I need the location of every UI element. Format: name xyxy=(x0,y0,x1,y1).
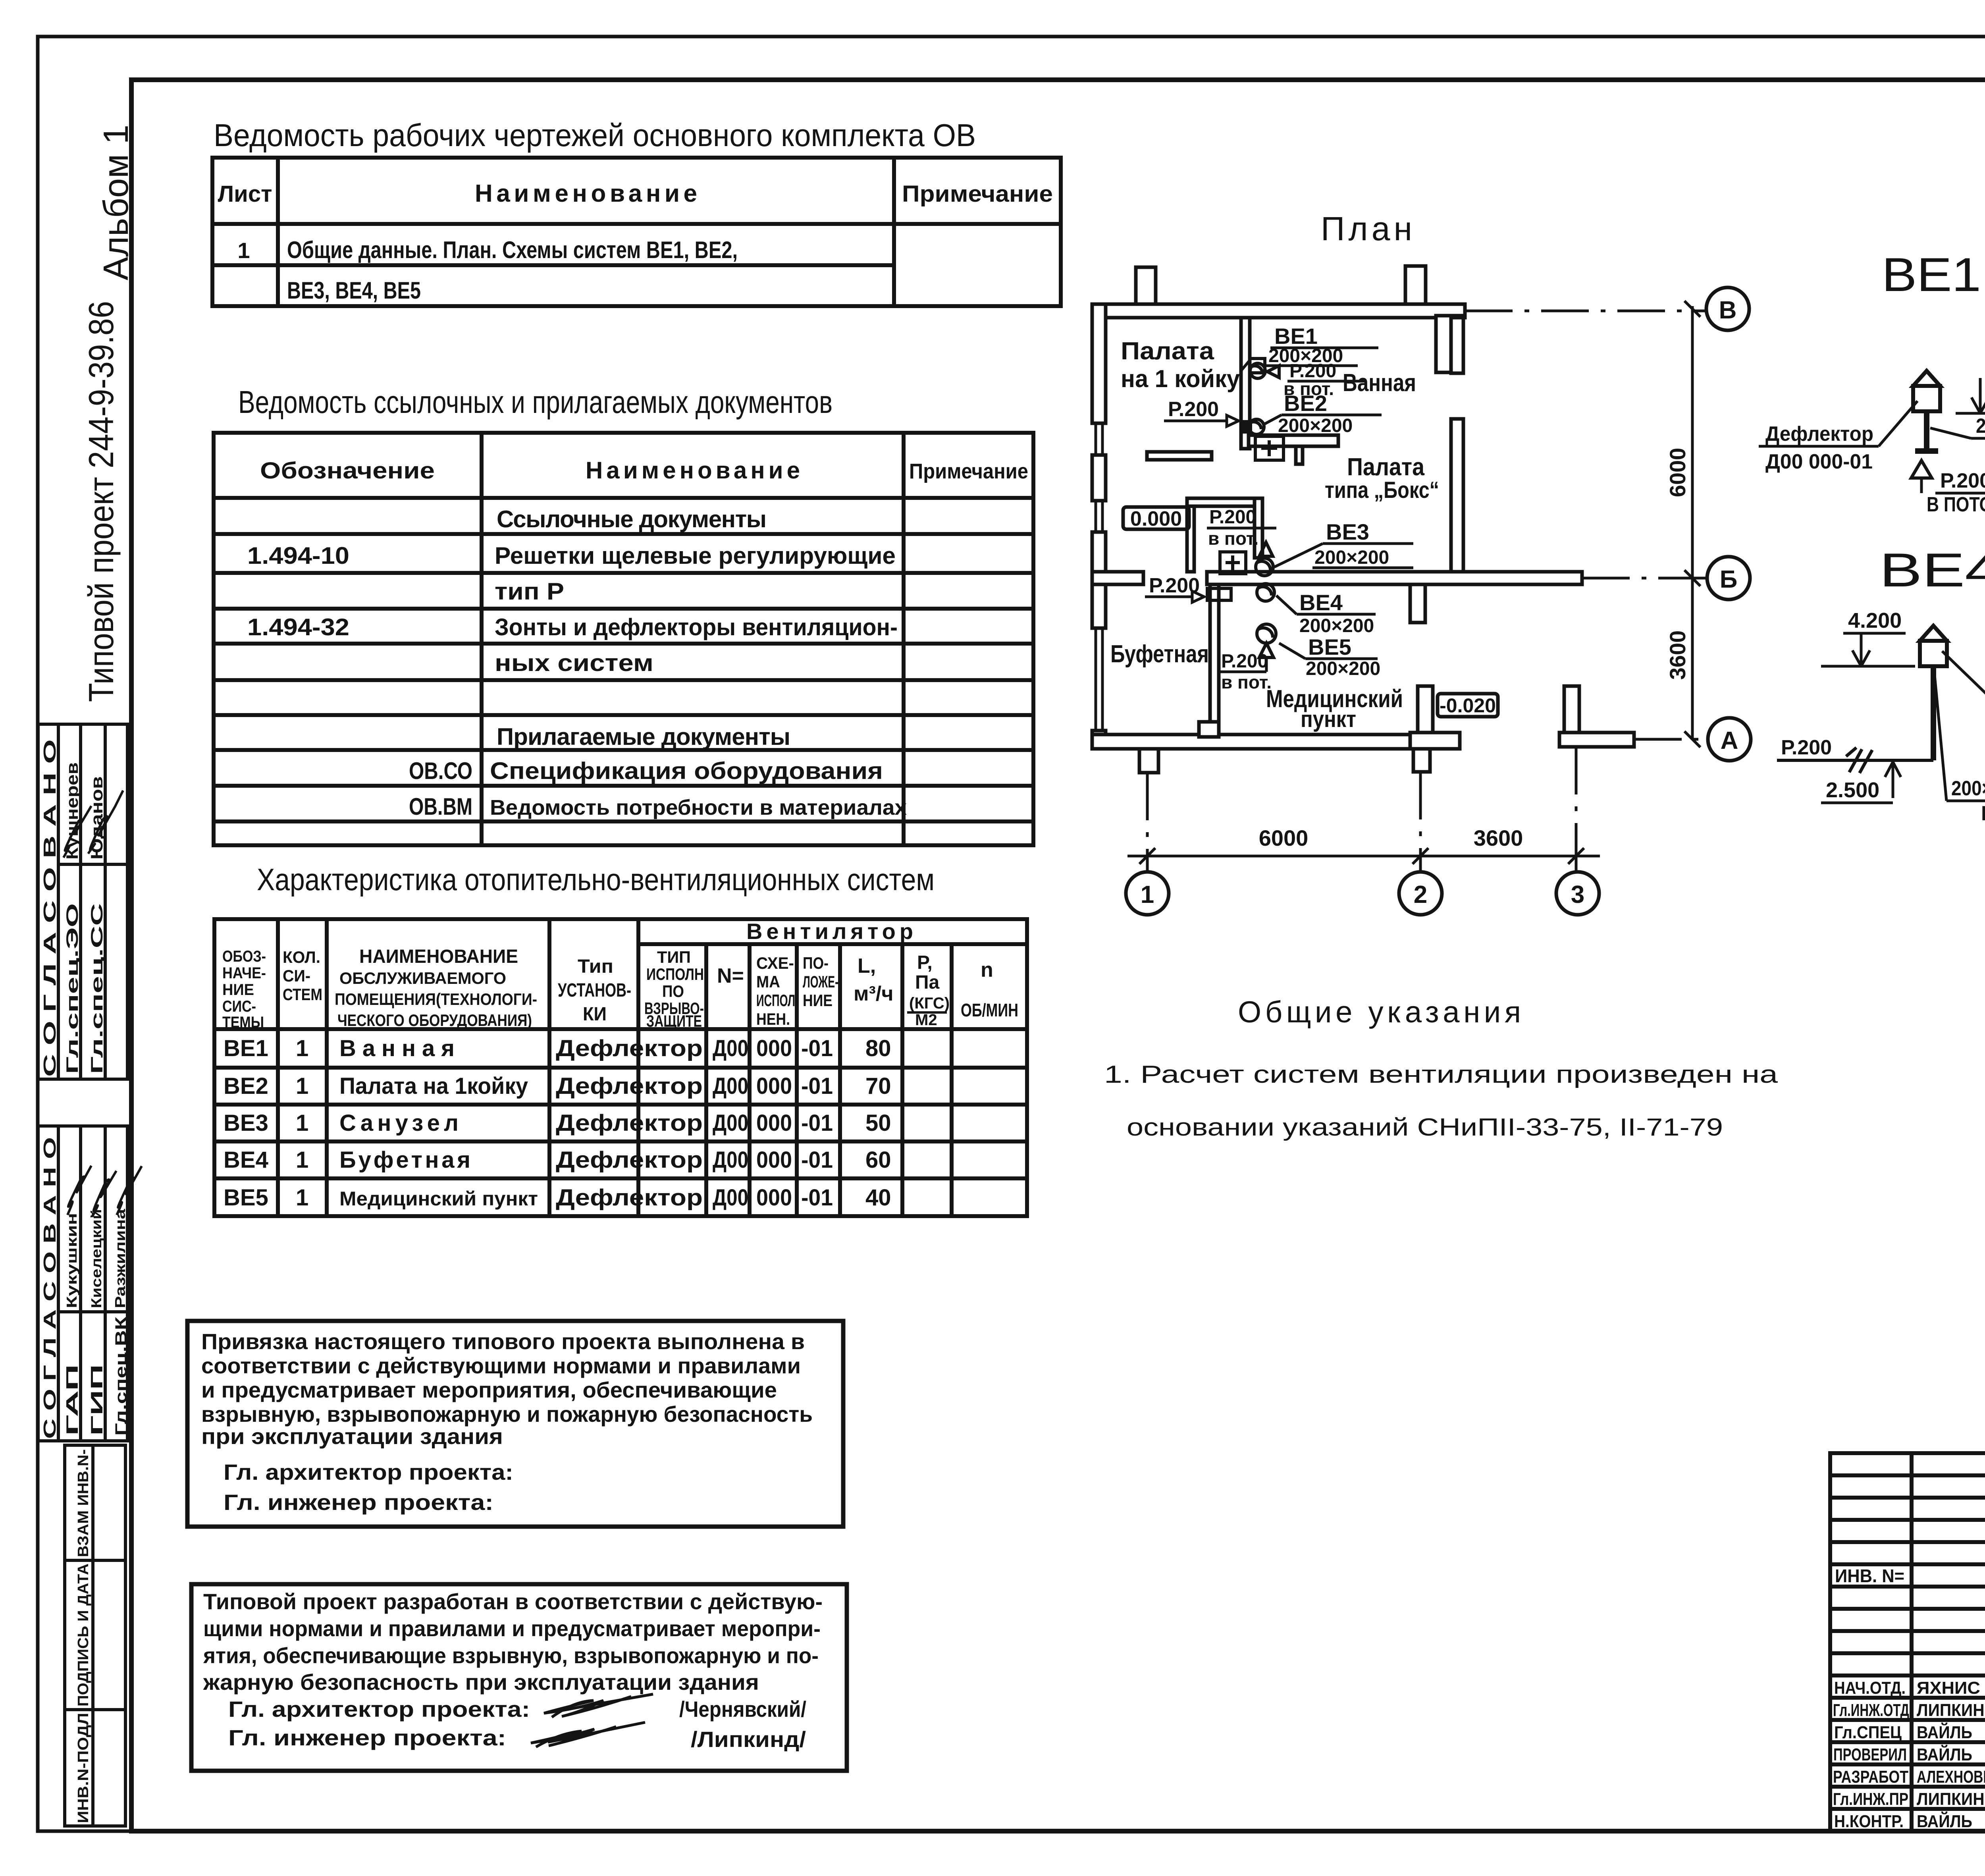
label duct size BE1 xyxy=(1930,415,1985,465)
svg-text:Р,: Р, xyxy=(917,952,933,973)
svg-text:ВЗАМ ИНВ.N-: ВЗАМ ИНВ.N- xyxy=(75,1449,92,1557)
svg-text:Обозначение: Обозначение xyxy=(260,458,435,484)
svg-text:Ванная: Ванная xyxy=(1343,369,1416,397)
svg-text:ОВ.ВМ: ОВ.ВМ xyxy=(409,793,472,820)
svg-text:Дефлектор: Дефлектор xyxy=(556,1073,703,1099)
bathroom bottom wall xyxy=(1249,435,1338,446)
duct BE4 xyxy=(1931,666,1936,760)
svg-text:ИНВ.N-ПОДЛ: ИНВ.N-ПОДЛ xyxy=(75,1713,92,1823)
approval block 2 xyxy=(38,1126,127,1441)
svg-text:Р.200: Р.200 xyxy=(1781,736,1832,759)
BE2 grille symbol xyxy=(1242,419,1264,434)
svg-text:Общие указания: Общие указания xyxy=(1238,995,1521,1029)
duct BE1 xyxy=(1915,411,1938,451)
svg-text:3600: 3600 xyxy=(1665,630,1690,680)
svg-text:Киселецкий: Киселецкий xyxy=(88,1209,104,1308)
svg-text:Д00: Д00 xyxy=(713,1147,748,1173)
BE4 labels xyxy=(1276,590,1376,636)
svg-text:ВАЙЛЬ: ВАЙЛЬ xyxy=(1917,1722,1972,1742)
BE4 fan symbol xyxy=(1257,584,1274,601)
svg-text:Медицинский пункт: Медицинский пункт xyxy=(339,1188,538,1210)
svg-text:в пот.: в пот. xyxy=(1221,672,1272,692)
svg-text:ПО-: ПО- xyxy=(803,954,829,972)
svg-text:СТЕМ: СТЕМ xyxy=(283,985,322,1004)
svg-text:на 1 койку: на 1 койку xyxy=(1121,365,1240,393)
svg-text:000: 000 xyxy=(756,1185,792,1211)
svg-text:ВЕ3: ВЕ3 xyxy=(224,1110,268,1136)
svg-text:План: План xyxy=(1321,210,1412,247)
svg-text:С О Г Л А С О В А Н О: С О Г Л А С О В А Н О xyxy=(40,739,60,1077)
svg-text:типа „Бокс“: типа „Бокс“ xyxy=(1325,477,1439,503)
svg-text:200×200: 200×200 xyxy=(1951,777,1985,800)
vertical dimension line xyxy=(1684,301,1700,747)
svg-text:6000: 6000 xyxy=(1665,448,1690,497)
svg-text:1: 1 xyxy=(296,1185,308,1211)
svg-text:ЗАЩИТЕ: ЗАЩИТЕ xyxy=(646,1012,702,1030)
svg-text:Р.200: Р.200 xyxy=(1209,507,1256,528)
chimney stub top-right xyxy=(1405,266,1426,304)
svg-text:ОБ/МИН: ОБ/МИН xyxy=(961,1000,1018,1020)
palata boks left wall xyxy=(1451,318,1463,373)
svg-text:Ведомость потребности в матери: Ведомость потребности в материалах xyxy=(490,796,907,819)
level mark 2.500 BE4 xyxy=(1821,762,1901,803)
svg-text:ВЕ1: ВЕ1 xyxy=(224,1035,268,1061)
svg-text:Гл. инженер проекта:: Гл. инженер проекта: xyxy=(228,1725,506,1750)
svg-text:Гл.СПЕЦ: Гл.СПЕЦ xyxy=(1834,1723,1902,1742)
svg-text:МА: МА xyxy=(756,972,780,991)
svg-text:200×200: 200×200 xyxy=(1314,547,1389,568)
svg-text:200×200: 200×200 xyxy=(1299,615,1374,636)
chimney stub top-left xyxy=(1136,267,1156,304)
partition Palata/Vannaya xyxy=(1241,318,1250,449)
svg-text:СХЕ-: СХЕ- xyxy=(756,954,794,972)
svg-text:ОВ.СО: ОВ.СО xyxy=(409,758,472,784)
svg-text:НИЕ: НИЕ xyxy=(803,991,833,1010)
deflector BE1 xyxy=(1913,371,1940,411)
svg-text:4.200: 4.200 xyxy=(1848,609,1902,632)
svg-text:Буфетная: Буфетная xyxy=(1110,640,1209,668)
svg-text:ВАЙЛЬ: ВАЙЛЬ xyxy=(1917,1744,1972,1764)
walls xyxy=(1092,266,1634,773)
svg-text:Гл.ИНЖ.ОТД: Гл.ИНЖ.ОТД xyxy=(1833,1701,1909,1720)
svg-text:Гл. архитектор проекта:: Гл. архитектор проекта: xyxy=(228,1697,530,1722)
svg-text:2: 2 xyxy=(1414,881,1427,908)
svg-text:1.494-10: 1.494-10 xyxy=(247,542,349,569)
svg-text:Па: Па xyxy=(915,972,940,993)
svg-text:ЛИПКИНА: ЛИПКИНА xyxy=(1917,1701,1985,1720)
svg-text:СИ-: СИ- xyxy=(283,966,310,985)
svg-text:ВЕ1: ВЕ1 xyxy=(1274,324,1318,349)
svg-text:Прилагаемые документы: Прилагаемые документы xyxy=(497,723,790,750)
svg-text:НАЧ.ОТД.: НАЧ.ОТД. xyxy=(1834,1678,1906,1698)
svg-text:Кушнерев: Кушнерев xyxy=(63,762,81,860)
svg-text:ИСПОЛН: ИСПОЛН xyxy=(646,965,704,983)
svg-text:L,: L, xyxy=(858,954,876,978)
svg-text:Палата на 1койку: Палата на 1койку xyxy=(339,1073,528,1099)
BE5 labels xyxy=(1279,634,1380,679)
svg-text:РАЗРАБОТ: РАЗРАБОТ xyxy=(1833,1767,1908,1787)
svg-text:М2: М2 xyxy=(915,1011,937,1029)
svg-text:1: 1 xyxy=(296,1035,308,1061)
svg-text:3600: 3600 xyxy=(1474,825,1523,850)
svg-text:-01: -01 xyxy=(801,1185,833,1211)
label duct size BE4 xyxy=(1935,675,1985,825)
svg-text:000: 000 xyxy=(756,1147,792,1173)
svg-text:ПОДПИСЬ И ДАТА: ПОДПИСЬ И ДАТА xyxy=(75,1564,92,1706)
svg-text:при эксплуатации здания: при эксплуатации здания xyxy=(201,1424,503,1449)
svg-text:ВЕ4: ВЕ4 xyxy=(1879,544,1985,597)
signatures block 1 xyxy=(64,791,123,858)
label deflector BE1 xyxy=(1759,401,1918,473)
level mark 4.200 BE4 xyxy=(1821,609,1915,666)
pilaster axis2 T xyxy=(1418,686,1433,749)
svg-text:соответствии с действующими но: соответствии с действующими нормами и пр… xyxy=(201,1353,801,1378)
svg-text:Гл. инженер проекта:: Гл. инженер проекта: xyxy=(224,1490,493,1515)
svg-text:УСТАНОВ-: УСТАНОВ- xyxy=(558,980,631,1001)
svg-text:ТИП: ТИП xyxy=(657,948,691,966)
svg-text:Дефлектор: Дефлектор xyxy=(556,1147,703,1173)
svg-text:Дефлектор: Дефлектор xyxy=(556,1035,703,1061)
svg-text:ВЕ5: ВЕ5 xyxy=(1308,634,1351,659)
svg-text:Ведомость рабочих чертежей осн: Ведомость рабочих чертежей основного ком… xyxy=(214,118,976,153)
svg-text:Общие данные. План. Схемы сист: Общие данные. План. Схемы систем ВЕ1, ВЕ… xyxy=(287,237,738,263)
svg-text:Привязка настоящего типового п: Привязка настоящего типового проекта вып… xyxy=(201,1329,805,1354)
svg-text:Буфетная: Буфетная xyxy=(339,1147,470,1173)
wall stub right of su xyxy=(1255,498,1262,558)
axis B wall (middle horizontal) xyxy=(1092,572,1143,584)
svg-text:основании указаний СНиПII-33-7: основании указаний СНиПII-33-75, II-71-7… xyxy=(1127,1114,1723,1141)
window lines on left wall xyxy=(1096,423,1102,731)
svg-text:Ссылочные документы: Ссылочные документы xyxy=(497,506,767,532)
svg-text:Гл.ИНЖ.ПР: Гл.ИНЖ.ПР xyxy=(1833,1789,1908,1809)
svg-text:1: 1 xyxy=(296,1073,308,1099)
svg-text:/Чернявский/: /Чернявский/ xyxy=(679,1697,806,1722)
BE1 grille symbol xyxy=(1250,359,1279,378)
bathroom wall stub xyxy=(1296,446,1303,464)
axis 2 vertical xyxy=(1419,772,1422,872)
svg-text:В ПОТОЛКЕ: В ПОТОЛКЕ xyxy=(1927,493,1985,516)
left exterior wall upper xyxy=(1092,304,1106,423)
svg-text:Гл. архитектор проекта:: Гл. архитектор проекта: xyxy=(224,1460,513,1485)
left signature table verticals xyxy=(1910,1453,1914,1830)
svg-text:-0.020: -0.020 xyxy=(1440,694,1496,717)
axis circle B xyxy=(1706,287,1749,330)
svg-text:Р.200: Р.200 xyxy=(1221,651,1268,672)
svg-text:Разжилина: Разжилина xyxy=(112,1209,128,1308)
svg-text:в пот.: в пот. xyxy=(1208,528,1258,549)
vestibule wall top-right xyxy=(1436,316,1462,372)
svg-text:1: 1 xyxy=(296,1110,308,1136)
axis circle 2 xyxy=(1399,872,1442,915)
level mark -0.020 xyxy=(1438,694,1498,717)
left exterior wall lower xyxy=(1092,576,1106,628)
document storage strip boxes xyxy=(65,1445,125,1826)
svg-text:Типовой проект разработан в со: Типовой проект разработан в соответствии… xyxy=(203,1589,823,1614)
axis line B horizontal xyxy=(1147,311,1706,872)
svg-text:1.494-32: 1.494-32 xyxy=(247,614,349,640)
svg-text:ВЕ5: ВЕ5 xyxy=(224,1185,268,1211)
svg-text:(КГС): (КГС) xyxy=(909,995,950,1012)
svg-text:НЕН.: НЕН. xyxy=(756,1010,790,1028)
BE4 duct stub xyxy=(1207,588,1231,600)
svg-text:Д00: Д00 xyxy=(713,1035,748,1061)
svg-text:Гл.спец.ВК: Гл.спец.ВК xyxy=(112,1316,130,1436)
svg-text:ТЕМЫ: ТЕМЫ xyxy=(222,1014,264,1031)
svg-text:щими нормами и правилами и пре: щими нормами и правилами и предусматрива… xyxy=(203,1616,821,1641)
svg-text:ГАП: ГАП xyxy=(63,1364,81,1436)
svg-text:L 60: L 60 xyxy=(1981,802,1985,825)
svg-text:Дефлектор: Дефлектор xyxy=(556,1185,703,1211)
svg-text:000: 000 xyxy=(756,1073,792,1099)
svg-text:ВЕ1: ВЕ1 xyxy=(1882,248,1981,301)
svg-text:Кукушкин: Кукушкин xyxy=(64,1213,80,1308)
svg-text:Типовой проект 244-9-39.86: Типовой проект 244-9-39.86 xyxy=(81,301,121,702)
buffet partition xyxy=(1210,584,1219,722)
svg-text:40: 40 xyxy=(865,1185,891,1211)
svg-text:1: 1 xyxy=(296,1147,308,1173)
svg-text:ных систем: ных систем xyxy=(495,650,653,676)
axis line Б xyxy=(1582,577,1706,580)
svg-text:50: 50 xyxy=(865,1110,891,1136)
axis circle 3 xyxy=(1556,872,1599,915)
plus box (su) xyxy=(1220,552,1246,574)
approval block 1 xyxy=(38,724,127,1079)
svg-text:/Липкинд/: /Липкинд/ xyxy=(691,1727,806,1752)
svg-text:ВЕ3: ВЕ3 xyxy=(1326,519,1369,544)
grille arrow BE1 xyxy=(1911,461,1932,478)
axis circle А xyxy=(1708,718,1751,761)
BE3 fan symbol xyxy=(1256,542,1273,576)
svg-text:Р.200: Р.200 xyxy=(1168,398,1219,421)
svg-text:ЛОЖЕ-: ЛОЖЕ- xyxy=(803,972,838,991)
P.200 line with valve BE4 xyxy=(1777,736,1933,773)
axis line А xyxy=(1634,738,1706,741)
svg-text:Н.КОНТР.: Н.КОНТР. xyxy=(1834,1812,1904,1831)
svg-text:000: 000 xyxy=(756,1035,792,1061)
handwritten signatures xyxy=(531,1694,653,1747)
label P.200 v potolke BE1 xyxy=(1921,469,1985,516)
svg-text:Дефлектор: Дефлектор xyxy=(1765,422,1873,445)
svg-text:-01: -01 xyxy=(801,1110,833,1136)
left table row lines xyxy=(1830,1473,1985,1477)
svg-text:Д00 000-01: Д00 000-01 xyxy=(1765,450,1873,473)
plus box (bathroom) xyxy=(1255,436,1284,460)
axis 3 vertical xyxy=(1575,747,1578,872)
svg-text:80: 80 xyxy=(865,1035,891,1061)
svg-text:ятия, обеспечивающие взрывную,: ятия, обеспечивающие взрывную, взрывопож… xyxy=(203,1643,819,1668)
svg-text:Д00: Д00 xyxy=(713,1110,748,1136)
BE1 labels xyxy=(1241,324,1378,399)
svg-text:N=: N= xyxy=(717,964,744,987)
svg-text:Альбом 1: Альбом 1 xyxy=(96,125,135,280)
svg-text:ЧЕСКОГО ОБОРУДОВАНИЯ): ЧЕСКОГО ОБОРУДОВАНИЯ) xyxy=(337,1011,532,1030)
axis circle 1 xyxy=(1126,872,1169,915)
P.200 arrow left (BE2 duct) xyxy=(1164,398,1239,426)
svg-text:60: 60 xyxy=(865,1147,891,1173)
svg-text:6000: 6000 xyxy=(1259,825,1309,850)
svg-text:Дефлектор: Дефлектор xyxy=(556,1110,703,1136)
svg-text:Лист: Лист xyxy=(218,181,272,207)
svg-text:тип Р: тип Р xyxy=(495,578,564,605)
signature rows labels xyxy=(1833,1678,1985,1831)
svg-text:1: 1 xyxy=(237,238,250,263)
BE2 labels xyxy=(1264,391,1382,436)
bottom exterior wall xyxy=(1092,735,1413,749)
svg-text:70: 70 xyxy=(865,1073,891,1099)
svg-text:ВЕ3, ВЕ4, ВЕ5: ВЕ3, ВЕ4, ВЕ5 xyxy=(287,277,421,304)
svg-text:ВАЙЛЬ: ВАЙЛЬ xyxy=(1917,1811,1972,1831)
svg-text:НИЕ: НИЕ xyxy=(222,981,254,999)
svg-text:1: 1 xyxy=(1141,881,1154,908)
svg-text:ЛИПКИНА: ЛИПКИНА xyxy=(1917,1789,1985,1809)
svg-text:ВЕ2: ВЕ2 xyxy=(224,1073,268,1099)
P.200 arrow (BE4 duct) xyxy=(1145,574,1204,602)
top exterior wall xyxy=(1092,304,1465,318)
svg-text:Гл.спец.СС: Гл.спец.СС xyxy=(87,903,106,1074)
pilaster axis3 corner xyxy=(1564,686,1579,747)
svg-text:В: В xyxy=(1719,297,1737,324)
svg-text:КИ: КИ xyxy=(583,1004,607,1025)
svg-text:Решетки щелевые регулирующие: Решетки щелевые регулирующие xyxy=(495,542,896,569)
svg-text:ЯХНИС: ЯХНИС xyxy=(1917,1678,1980,1698)
svg-text:2.500: 2.500 xyxy=(1826,778,1879,802)
svg-text:А: А xyxy=(1721,727,1738,754)
svg-text:200×200: 200×200 xyxy=(1306,658,1380,679)
svg-text:взрывную, взрывопожарную и пож: взрывную, взрывопожарную и пожарную безо… xyxy=(201,1402,813,1427)
level mark 4.200 BE1 xyxy=(1956,353,1985,413)
svg-text:м³/ч: м³/ч xyxy=(854,982,893,1005)
svg-text:Примечание: Примечание xyxy=(909,459,1028,483)
signatures block 2 xyxy=(67,1166,142,1217)
svg-text:ВЕ2: ВЕ2 xyxy=(1284,391,1327,416)
svg-text:ВЕ4: ВЕ4 xyxy=(224,1147,268,1173)
svg-text:Б: Б xyxy=(1720,566,1738,593)
svg-text:Ведомость ссылочных и прилагае: Ведомость ссылочных и прилагаемых докуме… xyxy=(238,384,833,420)
P.200 v pot. (BE3) xyxy=(1207,507,1276,549)
svg-text:КОЛ.: КОЛ. xyxy=(283,948,320,966)
svg-text:Тип: Тип xyxy=(578,956,613,977)
svg-text:НАИМЕНОВАНИЕ: НАИМЕНОВАНИЕ xyxy=(359,946,518,967)
svg-text:Р.200: Р.200 xyxy=(1940,469,1985,492)
pilaster T shape axis2 xyxy=(1413,749,1430,772)
svg-text:Палата: Палата xyxy=(1347,453,1424,481)
svg-text:СИС-: СИС- xyxy=(222,998,256,1015)
svg-text:ВЕ4: ВЕ4 xyxy=(1299,590,1343,615)
svg-text:ГИП: ГИП xyxy=(87,1364,106,1436)
svg-text:200×200: 200×200 xyxy=(1278,415,1353,436)
svg-text:Характеристика отопительно-вен: Характеристика отопительно-вентиляционны… xyxy=(257,862,935,897)
svg-text:пункт: пункт xyxy=(1301,706,1356,732)
svg-text:НАЧЕ-: НАЧЕ- xyxy=(222,964,266,982)
BE3 labels xyxy=(1274,519,1413,568)
svg-text:000: 000 xyxy=(756,1110,792,1136)
svg-text:200×200: 200×200 xyxy=(1976,415,1985,438)
svg-text:-01: -01 xyxy=(801,1035,833,1061)
horizontal dimension line xyxy=(1127,848,1600,864)
pilaster below bottom wall axis1 xyxy=(1139,749,1158,773)
level mark 0.000 xyxy=(1123,507,1189,530)
svg-text:ПРОВЕРИЛ: ПРОВЕРИЛ xyxy=(1833,1745,1907,1764)
palata lower wall stub xyxy=(1147,452,1212,460)
axis 1 vertical xyxy=(1146,773,1149,872)
svg-text:Палата: Палата xyxy=(1121,337,1214,365)
BE5 fan symbol xyxy=(1257,624,1276,657)
data rows xyxy=(224,1035,891,1211)
axis circle Б xyxy=(1707,557,1750,600)
svg-text:ОБОЗ-: ОБОЗ- xyxy=(222,948,266,965)
svg-text:0.000: 0.000 xyxy=(1130,507,1182,530)
svg-text:С О Г Л А С О В А Н О: С О Г Л А С О В А Н О xyxy=(40,1137,60,1439)
svg-text:жарную безопасность при эксплу: жарную безопасность при эксплуатации зда… xyxy=(203,1670,759,1695)
svg-text:Спецификация оборудования: Спецификация оборудования xyxy=(490,758,883,784)
label deflector BE4 xyxy=(1942,651,1985,724)
svg-text:3: 3 xyxy=(1571,881,1584,908)
svg-text:Д00: Д00 xyxy=(713,1185,748,1211)
svg-text:ИНВ. N=: ИНВ. N= xyxy=(1835,1566,1904,1586)
svg-text:Д00: Д00 xyxy=(713,1073,748,1099)
su partition stub xyxy=(1187,498,1262,506)
svg-text:ИСПОЛ: ИСПОЛ xyxy=(756,991,795,1010)
step at right of axis B wall xyxy=(1410,584,1425,623)
svg-text:n: n xyxy=(981,958,993,981)
svg-text:-01: -01 xyxy=(801,1073,833,1099)
svg-text:АЛЕХНОВИЧ: АЛЕХНОВИЧ xyxy=(1917,1767,1985,1787)
svg-text:ОБСЛУЖИВАЕМОГО: ОБСЛУЖИВАЕМОГО xyxy=(339,969,506,987)
svg-text:Гл.спец.ЭО: Гл.спец.ЭО xyxy=(63,903,81,1074)
svg-text:ПО: ПО xyxy=(662,982,684,1001)
svg-text:Примечание: Примечание xyxy=(902,181,1053,207)
P.200 v pot. (BE5) xyxy=(1219,651,1272,692)
svg-text:1. Расчет систем вентиляции пр: 1. Расчет систем вентиляции произведен н… xyxy=(1104,1061,1778,1088)
deflector BE4 xyxy=(1920,626,1947,666)
svg-text:-01: -01 xyxy=(801,1147,833,1173)
svg-text:ПОМЕЩЕНИЯ(ТЕХНОЛОГИ-: ПОМЕЩЕНИЯ(ТЕХНОЛОГИ- xyxy=(335,990,537,1008)
svg-text:Зонты и дефлекторы вентиляцион: Зонты и дефлекторы вентиляцион- xyxy=(495,614,898,640)
svg-text:и предусматривает мероприятия,: и предусматривает мероприятия, обеспечив… xyxy=(201,1377,777,1402)
